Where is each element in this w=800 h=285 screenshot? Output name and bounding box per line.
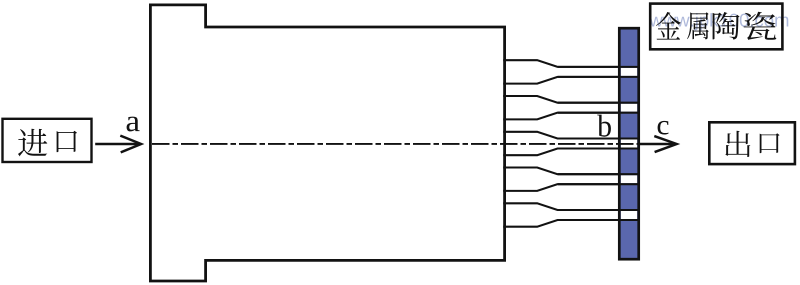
bore hole 3 through plate [621, 140, 637, 148]
metal-ceramic plate [619, 28, 638, 259]
nozzle 3 top profile line [503, 132, 639, 139]
glyph 口 (inlet) [57, 131, 77, 152]
nozzle 5 bottom profile line [503, 220, 639, 227]
nozzle 2 top profile line [503, 96, 639, 103]
nozzle 1 top profile line [503, 60, 639, 67]
bore hole 4 through plate [621, 175, 637, 183]
nozzle 1 bottom profile line [503, 77, 639, 84]
label b [597, 115, 611, 137]
inlet arrow a head [120, 136, 141, 153]
glyph 陶 [713, 12, 740, 39]
bore hole 2 through plate [621, 104, 637, 112]
bore 1 channel lines across plate [558, 66, 640, 68]
outlet arrow c shaft [640, 143, 674, 146]
watermark www...com [649, 13, 788, 30]
bore 5 channel lines across plate [558, 209, 640, 211]
vessel body outline [150, 5, 504, 281]
nozzle 3 bottom profile line [503, 149, 639, 156]
bore 2 channel lines across plate [558, 102, 640, 104]
centerline dash-dot [152, 143, 639, 145]
label a [127, 117, 140, 132]
outlet label box [709, 122, 795, 164]
metal-ceramic label box [650, 4, 782, 50]
glyph 口 (outlet) [760, 133, 780, 153]
bore 3 channel lines across plate [558, 137, 640, 139]
glyph 进 (inlet) [18, 129, 47, 157]
bore 4 channel lines across plate [558, 173, 640, 175]
outlet arrow c head [654, 136, 676, 152]
glyph 金 [656, 12, 681, 40]
label c [658, 121, 669, 135]
bore hole 1 through plate [621, 68, 637, 76]
glyph 出 (outlet) [725, 131, 750, 157]
nozzle 2 bottom profile line [503, 113, 639, 120]
inlet label box [3, 119, 92, 162]
inlet arrow a shaft [95, 143, 138, 146]
bore hole 5 through plate [621, 211, 637, 219]
glyph 属 [687, 12, 709, 39]
nozzle 4 bottom profile line [503, 184, 639, 191]
nozzle 4 top profile line [503, 168, 639, 175]
nozzle 5 top profile line [503, 203, 639, 210]
glyph 瓷 [744, 12, 777, 40]
